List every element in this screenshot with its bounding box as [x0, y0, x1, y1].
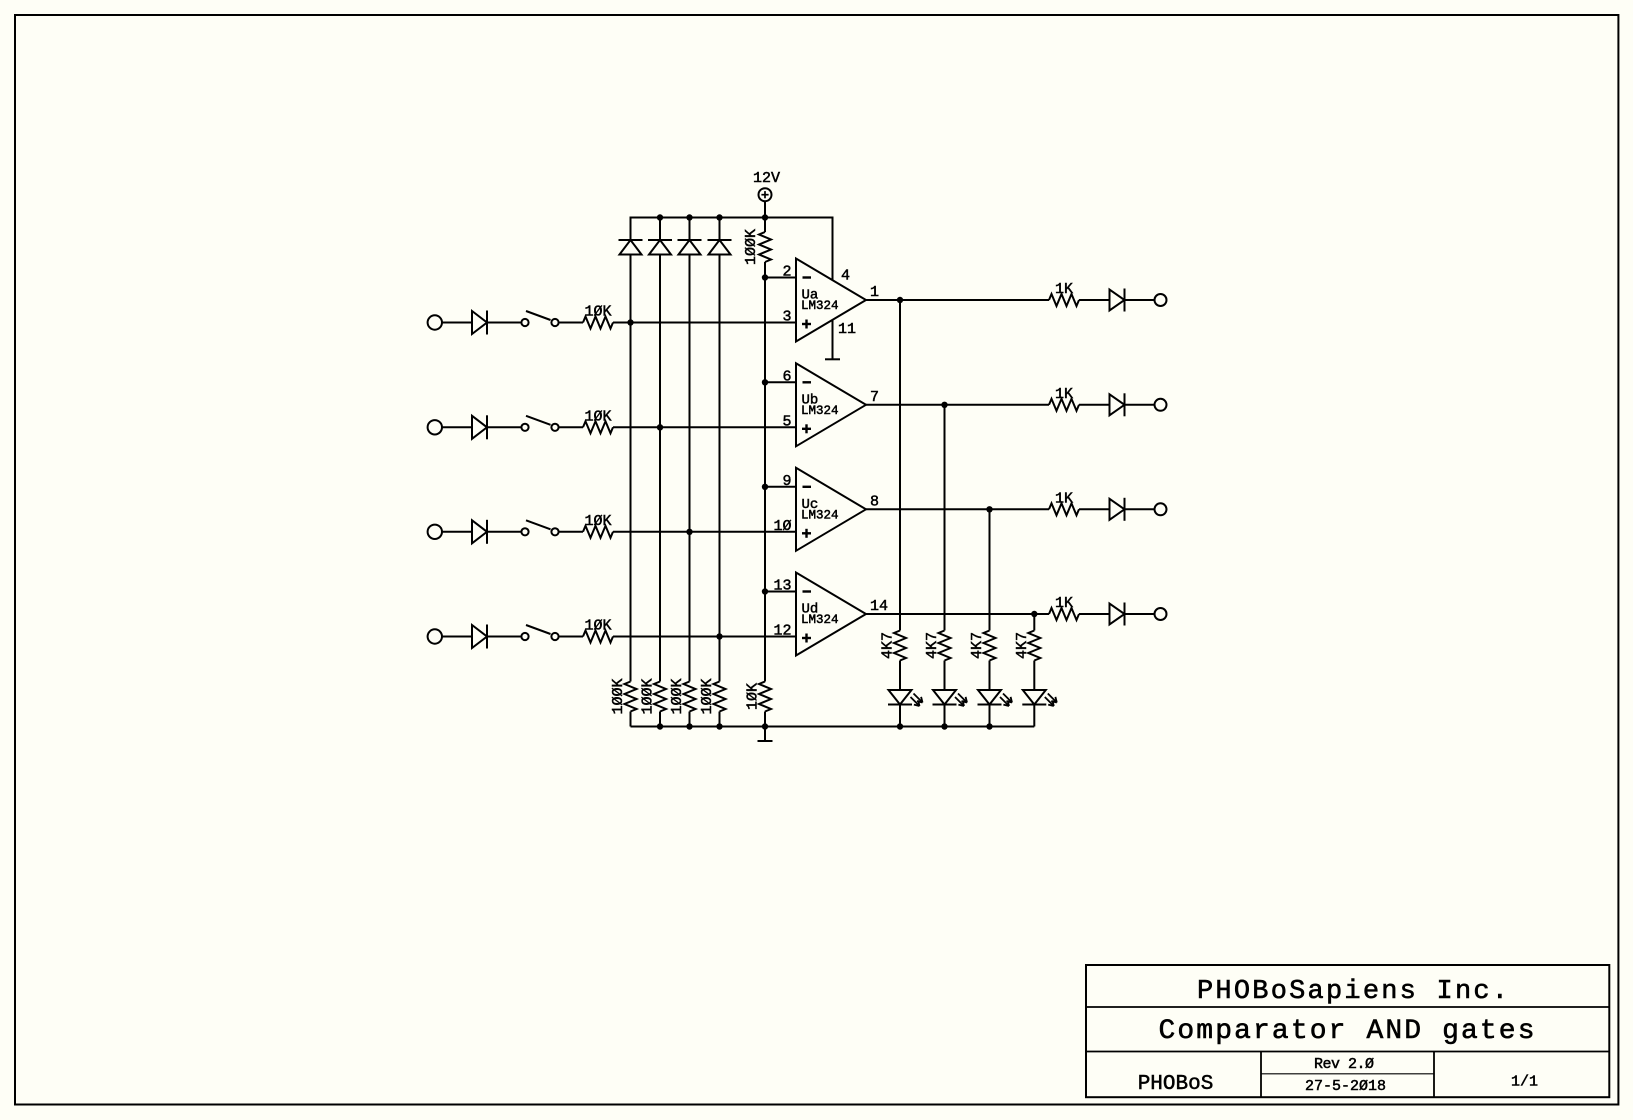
- wire ref to pin 2: [765, 277, 796, 279]
- LED 4: [1022, 690, 1057, 706]
- op-amp Ud LM324: [796, 573, 866, 656]
- resistor 10K row 1: [583, 304, 613, 329]
- svg-text:1ØØK: 1ØØK: [669, 678, 686, 714]
- LED 3: [978, 690, 1013, 706]
- wire output 3 c: [1125, 508, 1155, 510]
- power flag 12V: [753, 170, 780, 201]
- svg-text:LM324: LM324: [801, 613, 839, 627]
- wire top bus with pin-4 drop: [631, 218, 833, 281]
- diode output D2: [1110, 393, 1125, 416]
- junction ref node 1: [762, 274, 768, 280]
- title date: [1305, 1078, 1386, 1095]
- svg-text:PHOBoS: PHOBoS: [1138, 1073, 1214, 1096]
- wire input 4 c: [559, 636, 583, 638]
- resistor 4K7 2: [924, 631, 951, 661]
- wire output 2 c: [1125, 404, 1155, 406]
- svg-text:12: 12: [773, 623, 791, 640]
- pin number 12: [773, 623, 791, 640]
- wire 100K to rail 1: [630, 712, 632, 727]
- svg-text:1K: 1K: [1055, 595, 1073, 612]
- wire output 2: [866, 404, 1049, 406]
- wire input 4 a: [442, 636, 472, 638]
- svg-text:1/1: 1/1: [1511, 1074, 1538, 1091]
- wire ref to pin 13: [765, 591, 796, 593]
- wire LED 3 to rail: [989, 705, 991, 727]
- wire output 1 b: [1079, 299, 1110, 301]
- wire input 1 c: [559, 322, 583, 324]
- junction row 2 on line 2: [657, 424, 663, 430]
- diode D3 (AND diode, cathode up): [678, 240, 702, 255]
- wire vertical line 1: [630, 255, 632, 682]
- title company text: [1197, 977, 1508, 1007]
- svg-text:1Ø: 1Ø: [773, 518, 791, 535]
- pin number 7: [870, 389, 879, 406]
- wire drop 1: [899, 300, 901, 631]
- junction rail x=765.0: [762, 723, 768, 729]
- svg-text:1K: 1K: [1055, 386, 1073, 403]
- input terminal J2: [428, 420, 442, 434]
- junction bus line 3: [686, 214, 692, 220]
- output terminal 1: [1155, 294, 1167, 306]
- svg-text:1ØØK: 1ØØK: [640, 678, 657, 714]
- pin number 8: [870, 493, 879, 510]
- wire 4K7 to LED 4: [1033, 661, 1035, 691]
- svg-text:14: 14: [870, 598, 888, 615]
- wire output 2 b: [1079, 404, 1110, 406]
- input terminal J1: [428, 315, 442, 329]
- diode D2 (AND diode, cathode up): [648, 240, 672, 255]
- resistor 4K7 3: [969, 631, 996, 661]
- svg-text:LM324: LM324: [801, 508, 839, 522]
- svg-text:Rev 2.Ø: Rev 2.Ø: [1314, 1056, 1374, 1073]
- wire LED 2 to rail: [944, 705, 946, 727]
- wire drop 4: [1033, 614, 1035, 631]
- title page number: [1511, 1074, 1538, 1091]
- svg-text:1ØK: 1ØK: [584, 618, 611, 635]
- wire output 4: [866, 613, 1049, 615]
- wire stub bus to diode D2: [659, 218, 661, 241]
- input terminal J3: [428, 525, 442, 539]
- junction rail x=660.0: [657, 723, 663, 729]
- pin number 14: [870, 598, 888, 615]
- svg-text:1ØK: 1ØK: [584, 513, 611, 530]
- svg-text:PHOBoSapiens Inc.: PHOBoSapiens Inc.: [1197, 977, 1508, 1007]
- resistor 1K row 3: [1049, 490, 1079, 515]
- svg-text:4K7: 4K7: [880, 632, 897, 659]
- svg-text:7: 7: [870, 389, 879, 406]
- junction output 4: [1031, 611, 1037, 617]
- junction bus line 2: [657, 214, 663, 220]
- junction rail x=689.5: [686, 723, 692, 729]
- svg-text:11: 11: [838, 321, 856, 338]
- wire ref to pin 6: [765, 381, 796, 383]
- svg-text:13: 13: [773, 578, 791, 595]
- svg-text:LM324: LM324: [801, 299, 839, 313]
- switch SW4: [521, 625, 558, 640]
- pin 4 V+ of Ua: [833, 218, 851, 285]
- wire 4K7 to LED 2: [944, 661, 946, 691]
- wire LED 4 to rail: [1033, 705, 1035, 727]
- junction ref node 4: [762, 588, 768, 594]
- svg-text:1ØK: 1ØK: [584, 304, 611, 321]
- diode D4 (AND diode, cathode up): [708, 240, 732, 255]
- wire input 4 to op-amp: [613, 636, 796, 638]
- junction output 1: [897, 297, 903, 303]
- junction row 3 on line 3: [686, 529, 692, 535]
- svg-text:1ØK: 1ØK: [584, 408, 611, 425]
- pin number 1: [870, 284, 879, 301]
- resistor 1K row 2: [1049, 386, 1079, 411]
- junction top bus at 12V: [762, 214, 768, 220]
- resistor 10K (reference divider bottom): [745, 682, 772, 712]
- output terminal 2: [1155, 399, 1167, 411]
- diode input D2: [472, 415, 487, 439]
- junction rail x=719.5: [716, 723, 722, 729]
- junction rail x=944.5: [941, 723, 947, 729]
- svg-text:8: 8: [870, 493, 879, 510]
- wire divider mid: [764, 262, 766, 682]
- svg-text:1ØØK: 1ØØK: [743, 229, 760, 265]
- wire input 3 to op-amp: [613, 531, 796, 533]
- resistor 100K line 2: [640, 678, 667, 714]
- input terminal J4: [428, 629, 442, 643]
- resistor 10K row 2: [583, 408, 613, 433]
- pin number 5: [782, 413, 791, 430]
- resistor 100K (reference divider top): [743, 229, 771, 265]
- svg-text:12V: 12V: [753, 170, 780, 187]
- pin number 2: [782, 264, 791, 281]
- wire vertical line 4: [719, 255, 721, 682]
- wire output 4 b: [1079, 613, 1110, 615]
- wire 12V stub: [764, 201, 766, 232]
- wire 4K7 to LED 3: [989, 661, 991, 691]
- pin number 9: [782, 473, 791, 490]
- diode output D1: [1110, 289, 1125, 312]
- wire stub bus to diode D3: [689, 218, 691, 241]
- wire input 1 a: [442, 322, 472, 324]
- svg-text:1ØØK: 1ØØK: [699, 678, 716, 714]
- wire vertical line 3: [689, 255, 691, 682]
- LED 1: [888, 690, 923, 706]
- resistor 4K7 1: [880, 631, 907, 661]
- wire output 4 c: [1125, 613, 1155, 615]
- junction row 4 on line 4: [716, 633, 722, 639]
- junction bus line 4: [716, 214, 722, 220]
- wire input 3 b: [488, 531, 522, 533]
- svg-text:4K7: 4K7: [1014, 632, 1031, 659]
- wire input 3 a: [442, 531, 472, 533]
- switch SW1: [521, 311, 558, 326]
- wire input 2 b: [488, 426, 522, 428]
- pin 11 V- of Ua with ground: [825, 320, 856, 360]
- wire input 1 to op-amp: [613, 322, 796, 324]
- junction ref node 2: [762, 379, 768, 385]
- switch SW2: [521, 416, 558, 431]
- op-amp Ua LM324: [796, 259, 866, 342]
- title block: [1086, 965, 1609, 1097]
- switch SW3: [521, 520, 558, 535]
- wire 100K to rail 3: [689, 712, 691, 727]
- svg-text:27-5-2Ø18: 27-5-2Ø18: [1305, 1078, 1386, 1095]
- resistor 10K row 3: [583, 513, 613, 538]
- resistor 100K line 4: [699, 678, 726, 714]
- svg-text:1ØK: 1ØK: [745, 683, 762, 710]
- LED 2: [933, 690, 968, 706]
- wire output 3: [866, 508, 1049, 510]
- diode input D3: [472, 520, 487, 544]
- junction ref node 3: [762, 484, 768, 490]
- title author: [1138, 1073, 1214, 1096]
- wire 100K to rail 2: [659, 712, 661, 727]
- junction output 2: [941, 402, 947, 408]
- svg-text:1: 1: [870, 284, 879, 301]
- wire output 1 c: [1125, 299, 1155, 301]
- pin number 6: [782, 368, 791, 385]
- svg-text:9: 9: [782, 473, 791, 490]
- junction rail x=989.5: [986, 723, 992, 729]
- wire stub bus to diode D4: [719, 218, 721, 241]
- svg-text:4K7: 4K7: [969, 632, 986, 659]
- svg-text:1K: 1K: [1055, 281, 1073, 298]
- wire input 2 a: [442, 426, 472, 428]
- diode input D4: [472, 625, 487, 649]
- svg-text:LM324: LM324: [801, 404, 839, 418]
- wire input 4 b: [488, 636, 522, 638]
- title revision: [1314, 1056, 1374, 1073]
- wire 100K to rail 4: [719, 712, 721, 727]
- wire input 2 c: [559, 426, 583, 428]
- diode input D1: [472, 311, 487, 335]
- diode output D3: [1110, 498, 1125, 521]
- output terminal 4: [1155, 608, 1167, 620]
- wire drop 3: [989, 509, 991, 630]
- wire 4K7 to LED 1: [899, 661, 901, 691]
- wire drop 2: [944, 405, 946, 631]
- wire input 3 c: [559, 531, 583, 533]
- diode D1 (AND diode, cathode up): [619, 240, 643, 255]
- svg-text:4: 4: [841, 268, 850, 285]
- svg-text:6: 6: [782, 368, 791, 385]
- pin number 1Ø: [773, 518, 791, 535]
- op-amp Ub LM324: [796, 363, 866, 446]
- wire output 1: [866, 299, 1049, 301]
- junction output 3: [986, 506, 992, 512]
- wire bottom rail GND net: [631, 726, 1035, 728]
- wire input 2 to op-amp: [613, 426, 796, 428]
- svg-text:2: 2: [782, 264, 791, 281]
- output terminal 3: [1155, 503, 1167, 515]
- title sheet name: [1159, 1016, 1535, 1047]
- wire 10K to rail: [764, 712, 766, 727]
- wire output 3 b: [1079, 508, 1110, 510]
- resistor 10K row 4: [583, 618, 613, 643]
- svg-text:4K7: 4K7: [924, 632, 941, 659]
- resistor 1K row 1: [1049, 281, 1079, 306]
- junction row 1 on line 1: [627, 319, 633, 325]
- svg-text:1K: 1K: [1055, 490, 1073, 507]
- svg-text:3: 3: [782, 309, 791, 326]
- op-amp Uc LM324: [796, 468, 866, 551]
- resistor 1K row 4: [1049, 595, 1079, 620]
- ground: [758, 727, 773, 742]
- pin number 13: [773, 578, 791, 595]
- resistor 100K line 3: [669, 678, 696, 714]
- wire vertical line 2: [659, 255, 661, 682]
- wire LED 1 to rail: [899, 705, 901, 727]
- resistor 100K line 1: [610, 678, 637, 714]
- wire ref to pin 9: [765, 486, 796, 488]
- junction rail x=900.0: [897, 723, 903, 729]
- diode output D4: [1110, 603, 1125, 626]
- resistor 4K7 4: [1014, 631, 1041, 661]
- svg-text:1ØØK: 1ØØK: [610, 678, 627, 714]
- svg-text:5: 5: [782, 413, 791, 430]
- pin number 3: [782, 309, 791, 326]
- wire input 1 b: [488, 322, 522, 324]
